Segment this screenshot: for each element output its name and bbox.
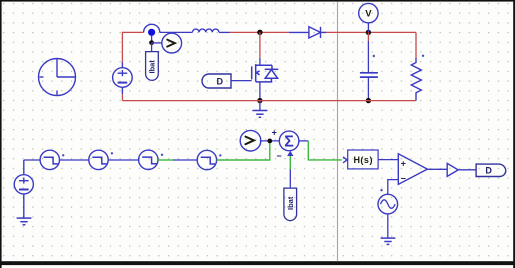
gate tag D <box>202 74 231 88</box>
wire node to junction <box>151 36 153 43</box>
svg-text:−: − <box>276 151 281 161</box>
junction <box>267 139 272 144</box>
wire junction to ammeter <box>152 42 162 44</box>
svg-text:+: + <box>272 128 277 138</box>
junction output node <box>366 30 371 35</box>
output tag D <box>476 164 506 176</box>
wire S2-S3 <box>108 159 138 161</box>
voltage source V2 <box>14 160 33 218</box>
svg-text:Ibat: Ibat <box>286 196 295 210</box>
capacitor C1 <box>360 32 378 100</box>
svg-text:Ibat: Ibat <box>148 60 157 74</box>
wire source to ground rail <box>259 82 261 101</box>
resistor R1 <box>411 32 424 100</box>
buffer triangle <box>447 163 458 176</box>
label tag Ibat (bottom) with wire to sum <box>284 151 297 221</box>
voltmeter V1 <box>359 3 378 32</box>
ammeter probe A1 <box>162 33 182 53</box>
inductor L1 <box>193 29 219 32</box>
svg-text:+: + <box>401 159 406 169</box>
wire V2 to step chain <box>24 159 40 161</box>
svg-text:−: − <box>401 174 406 184</box>
wire H(s) to op-amp <box>378 159 398 161</box>
summation block <box>279 131 299 151</box>
MOSFET Q1 with body diode <box>231 58 278 82</box>
step source S1 <box>40 150 64 169</box>
svg-text:V: V <box>365 9 372 20</box>
wire buffer to tag D <box>458 169 476 171</box>
probe A2 <box>240 130 261 151</box>
svg-text:D: D <box>485 166 492 176</box>
step source S4 <box>197 150 221 169</box>
ground (power stage) <box>252 101 267 118</box>
op-amp (comparator) U1 <box>398 154 427 185</box>
ground (V2) <box>17 218 32 225</box>
wire probe to sum <box>260 140 280 142</box>
svg-text:D: D <box>217 76 224 86</box>
ground (sine) <box>381 214 396 245</box>
wire inductor to drain node <box>219 31 230 33</box>
transfer function H(s) <box>348 150 378 169</box>
junction cap bottom <box>366 98 371 103</box>
wire hop over node <box>144 24 160 32</box>
svg-text:H(s): H(s) <box>353 155 373 165</box>
wire bottom rail <box>122 100 416 102</box>
wire S4 to summing junction (green) <box>217 143 270 161</box>
junction <box>149 40 154 45</box>
wire drain red <box>259 32 261 58</box>
wire sum output to H(s) <box>299 141 347 163</box>
node (blue) on battery net <box>148 29 155 36</box>
wire op-amp to buffer <box>427 168 447 170</box>
wire sine to op-amp minus input <box>388 180 399 195</box>
wire to inductor <box>160 31 193 33</box>
junction ground node <box>257 98 262 103</box>
wire red: battery left loop <box>122 32 143 100</box>
sine source <box>378 189 398 214</box>
step source S2 <box>89 150 113 169</box>
voltage source V1 (battery) <box>113 63 133 95</box>
label tag Ibat (top) <box>146 52 159 81</box>
wire output node to resistor <box>368 31 416 33</box>
wire S1-S2 <box>60 159 89 161</box>
clock <box>39 59 76 96</box>
svg-text:Σ: Σ <box>284 134 294 151</box>
junction drain node <box>257 30 262 35</box>
diode D1 <box>289 27 327 38</box>
wire diode to output node <box>326 31 368 33</box>
step source S3 <box>139 150 164 169</box>
wire junction to tag <box>151 43 153 52</box>
wire S3-S4 <box>158 159 173 161</box>
